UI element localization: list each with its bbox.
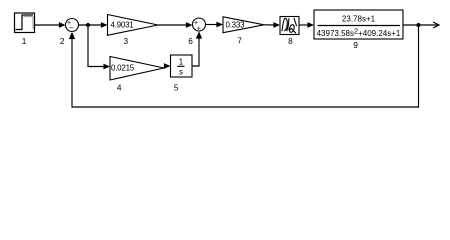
svg-text:23.78s+1: 23.78s+1 <box>342 15 376 24</box>
branch wire junction to gain 4 <box>88 25 110 69</box>
svg-text:−: − <box>69 24 74 33</box>
svg-text:6: 6 <box>188 36 193 46</box>
svg-text:2: 2 <box>60 36 65 46</box>
svg-text:4: 4 <box>117 83 122 93</box>
sum block 6 <box>193 18 206 32</box>
feedback wire from output to sum 2 <box>69 25 419 107</box>
junction node after sum 2 <box>86 23 90 27</box>
svg-text:+: + <box>197 25 201 32</box>
wire sum 6 to gain 7 <box>206 22 224 28</box>
svg-text:0.333: 0.333 <box>226 20 246 29</box>
wire step to sum 2 <box>35 22 66 28</box>
transfer fcn block 9 <box>314 10 403 39</box>
sum block 2 <box>66 19 79 33</box>
wire block 8 to transfer fcn 9 <box>299 22 314 28</box>
wire sum 2 to gain 3 <box>79 22 108 28</box>
svg-text:5: 5 <box>174 83 179 93</box>
noise block 8 <box>280 17 299 35</box>
gain block 7 <box>223 17 264 33</box>
gain block 3 <box>108 15 159 36</box>
wire gain 4 to integrator 5 <box>164 63 171 69</box>
svg-text:9: 9 <box>353 40 358 50</box>
gain block 4 <box>110 57 164 81</box>
wire integrator 5 to sum 6 <box>192 31 202 66</box>
junction node output <box>417 23 421 27</box>
output wire with open arrow <box>403 22 439 28</box>
svg-text:s: s <box>179 67 183 76</box>
wire gain 3 to sum 6 <box>158 22 193 28</box>
svg-text:3: 3 <box>123 36 128 46</box>
svg-text:1: 1 <box>179 57 184 66</box>
wire gain 7 to block 8 <box>264 22 280 28</box>
svg-text:1: 1 <box>22 36 27 46</box>
svg-text:0.0215: 0.0215 <box>111 63 135 72</box>
svg-text:7: 7 <box>237 36 242 46</box>
step source block 1 <box>15 13 35 33</box>
integrator block 5 <box>171 55 193 77</box>
svg-text:4.9031: 4.9031 <box>111 21 135 30</box>
svg-text:43973.58s2+409.24s+1: 43973.58s2+409.24s+1 <box>317 26 401 38</box>
svg-text:8: 8 <box>288 36 293 46</box>
